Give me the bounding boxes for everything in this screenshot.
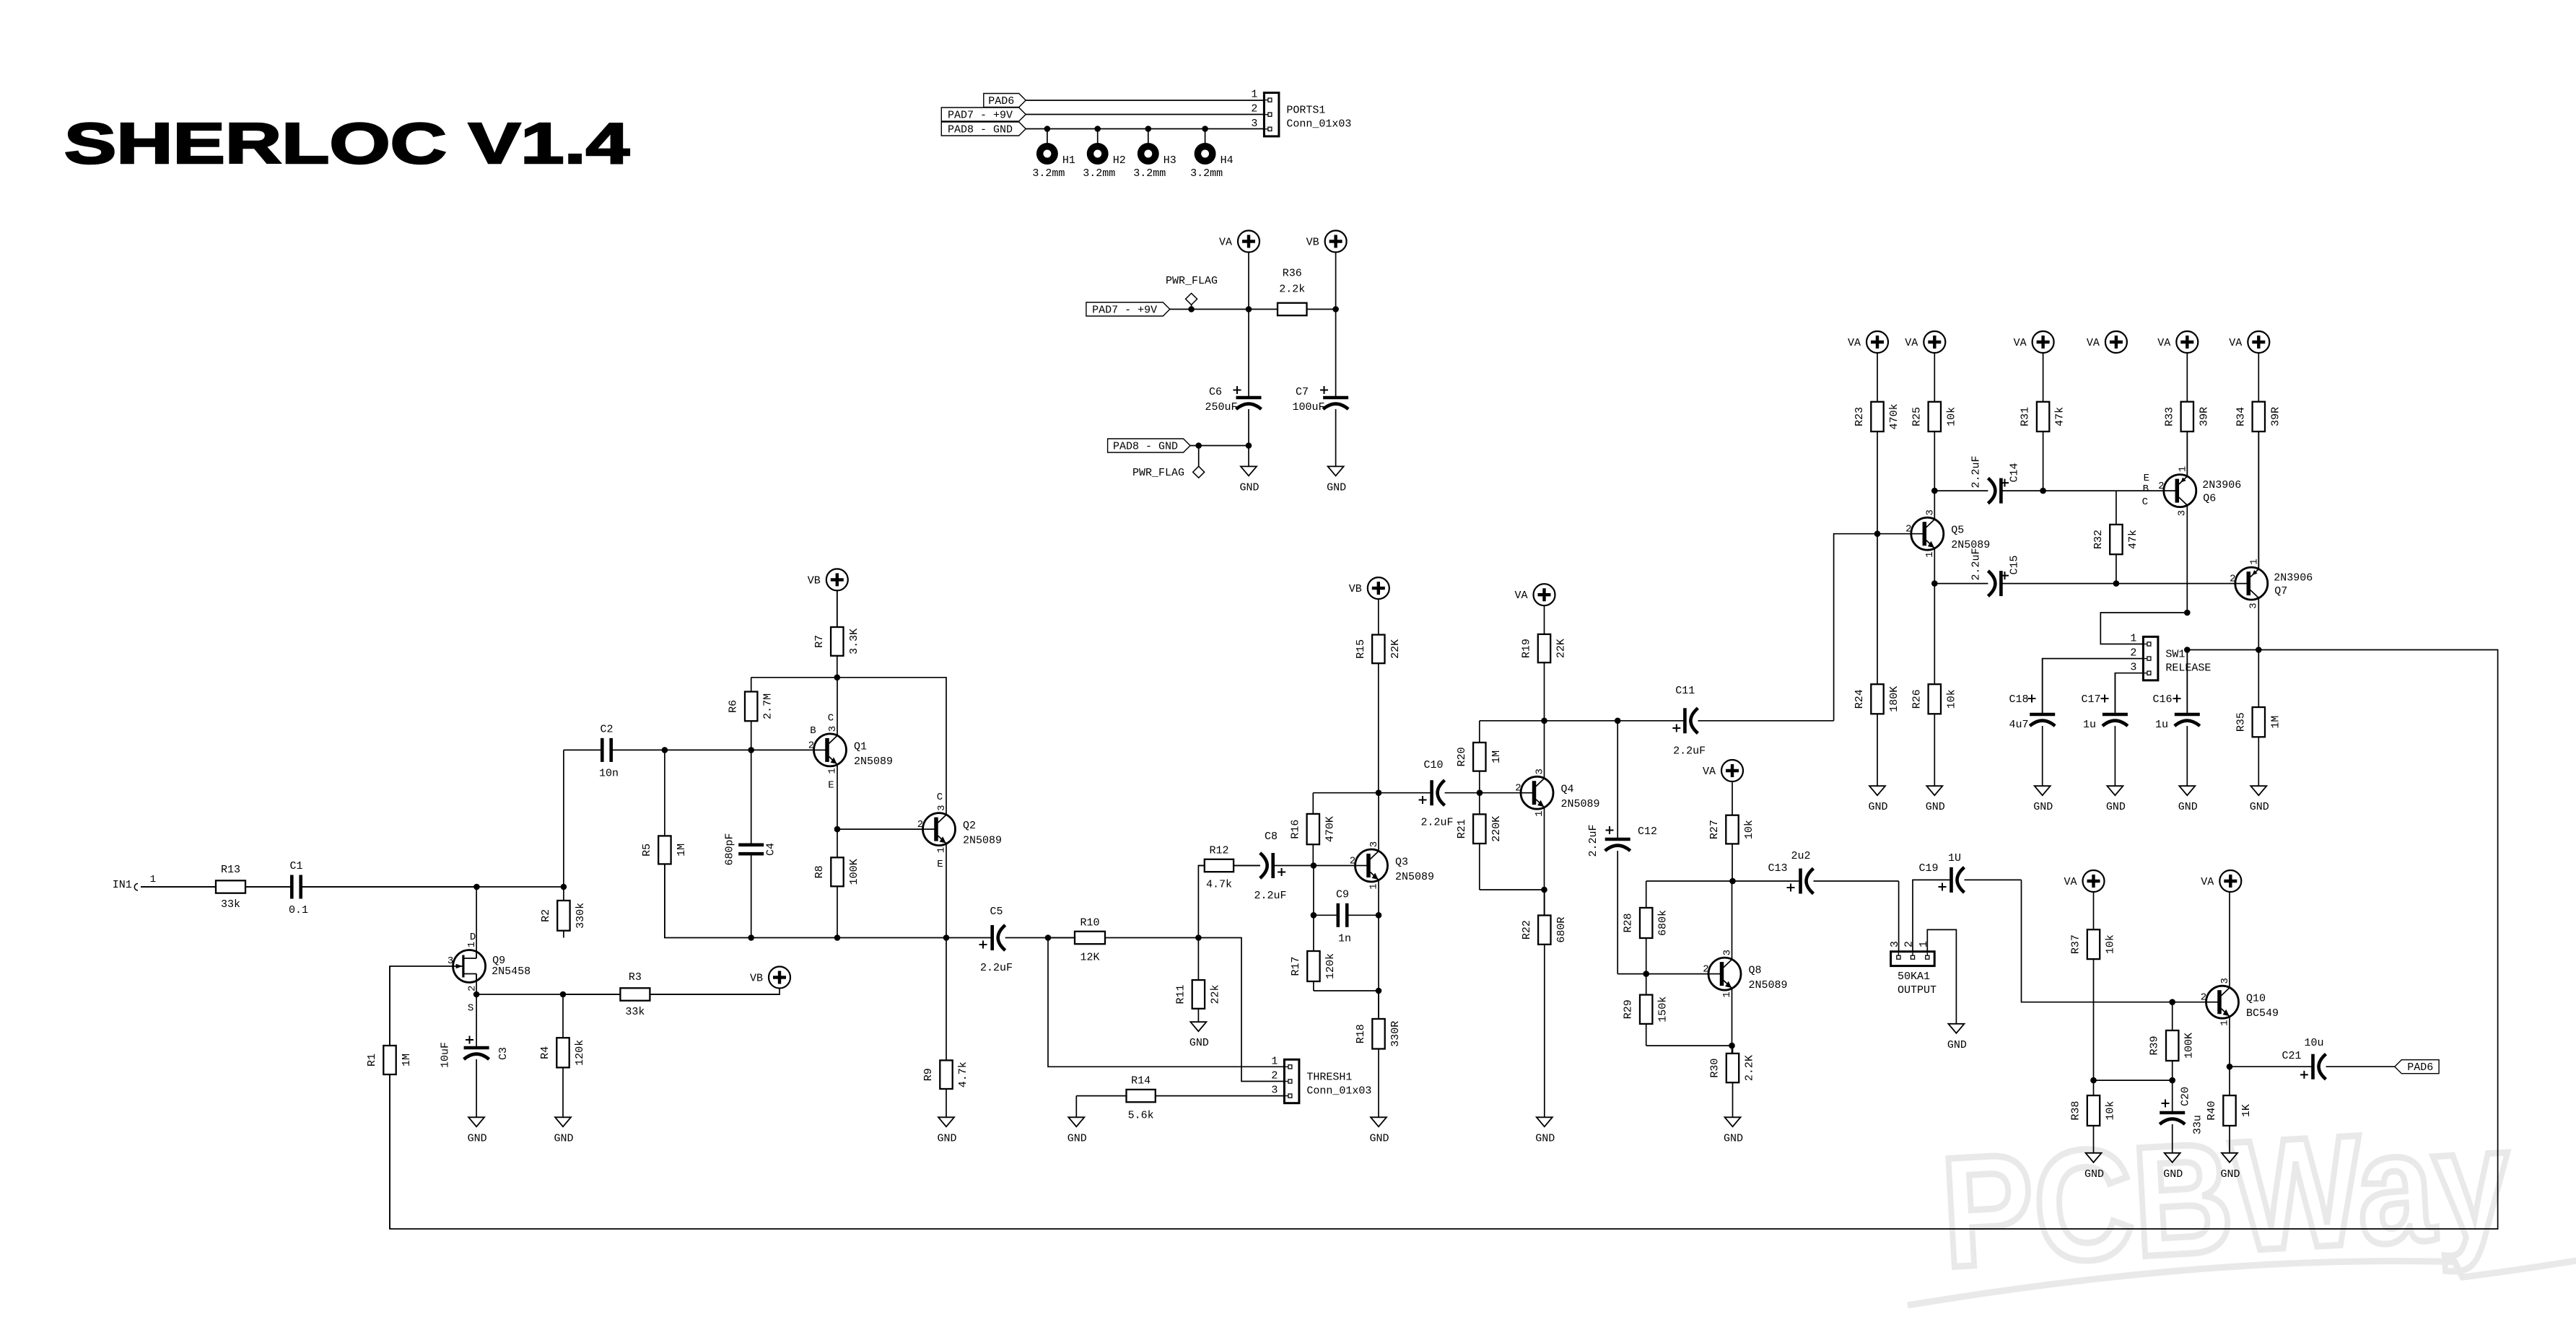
svg-text:3: 3: [2248, 603, 2259, 608]
transistor Q5 2N5089: [1905, 509, 1990, 558]
svg-text:GND: GND: [468, 1132, 487, 1144]
junction C10 right R20 R21 Q4 base: [1477, 789, 1483, 796]
wire to Q8 base: [1646, 973, 1708, 975]
wire R3 to VB: [650, 989, 780, 995]
svg-text:10k: 10k: [2105, 934, 2117, 954]
transistor Q7 2N3906 PNP: [2230, 559, 2313, 608]
svg-text:R7: R7: [813, 635, 826, 648]
hierarchical label PAD7 power: [1086, 302, 1170, 317]
svg-text:C3: C3: [497, 1047, 510, 1060]
wire Q9 source lead: [476, 974, 477, 995]
wire pot pin2 to C19: [1913, 880, 1950, 951]
connector PORTS1: [1251, 89, 1351, 136]
svg-text:10uF: 10uF: [440, 1042, 452, 1068]
svg-text:2.2uF: 2.2uF: [1970, 455, 1983, 488]
ground GND R24: [1868, 786, 1887, 813]
svg-text:1: 1: [150, 874, 156, 885]
ground GND C17: [2106, 786, 2126, 813]
wire R38 to GND: [2093, 1126, 2095, 1153]
svg-text:GND: GND: [1239, 481, 1259, 494]
junction node Q9 drain: [473, 884, 480, 890]
svg-text:2N3906: 2N3906: [2202, 479, 2241, 491]
resistor R30 2.2K: [1709, 1046, 1756, 1117]
svg-text:VB: VB: [1349, 583, 1362, 595]
capacitor C1 0.1: [245, 860, 476, 916]
wire Q3 collector up: [1378, 793, 1379, 851]
svg-text:33k: 33k: [625, 1006, 645, 1018]
svg-text:2: 2: [2230, 574, 2235, 585]
wire R37/R38 to C20: [2094, 1080, 2173, 1081]
power symbol VB at R3: [750, 967, 790, 989]
resistor R29 150k: [1623, 974, 1669, 1046]
svg-text:120k: 120k: [1324, 953, 1337, 979]
transistor Q1 2N5089: [808, 712, 893, 791]
transistor Q3 2N5089: [1350, 841, 1434, 890]
svg-text:1: 1: [1534, 810, 1545, 816]
svg-text:R9: R9: [922, 1068, 935, 1081]
resistor R32 47k: [2092, 491, 2139, 584]
svg-text:680k: 680k: [1657, 910, 1669, 936]
resistor R7 3.3K: [813, 590, 860, 677]
wire PWR_FLAG stem: [1191, 305, 1192, 309]
svg-text:S: S: [468, 1003, 473, 1015]
junction Q5 emitter R26: [1931, 580, 1938, 587]
wire to Q5 base: [1877, 533, 1911, 535]
svg-text:R31: R31: [2020, 407, 2032, 426]
svg-text:VA: VA: [2087, 337, 2100, 349]
svg-text:VA: VA: [1905, 337, 1918, 349]
ground GND R9: [937, 1117, 956, 1144]
svg-text:10u: 10u: [2304, 1037, 2323, 1049]
wire R16 top to Q3 collector: [1313, 792, 1379, 794]
wire C6 to GND: [1248, 446, 1249, 467]
mounting hole H2 3.2mm: [1083, 146, 1126, 180]
svg-text:180K: 180K: [1888, 686, 1900, 712]
svg-text:10n: 10n: [599, 767, 619, 779]
svg-text:1: 1: [1721, 991, 1733, 997]
svg-text:3: 3: [1889, 941, 1901, 947]
svg-text:B: B: [810, 725, 816, 737]
resistor R27 10k: [1708, 781, 1755, 881]
svg-text:VA: VA: [1219, 237, 1232, 249]
transistor Q4 2N5089: [1515, 768, 1599, 817]
power symbol VA x=2830.6: [2014, 331, 2054, 353]
wire R14 to GND: [1075, 1096, 1077, 1118]
svg-text:PAD7 - +9V: PAD7 - +9V: [948, 110, 1013, 122]
svg-text:GND: GND: [2084, 1168, 2104, 1181]
svg-text:3: 3: [2130, 662, 2136, 674]
resistor R33 39R: [2163, 353, 2210, 475]
wire Q8 emitter down: [1732, 989, 1733, 1054]
svg-text:H4: H4: [1221, 154, 1234, 167]
svg-text:Q1: Q1: [854, 740, 867, 753]
hierarchical label PAD7 - +9V: [941, 108, 1026, 122]
svg-text:2.2uF: 2.2uF: [1254, 890, 1286, 902]
svg-text:R13: R13: [221, 864, 240, 876]
svg-text:2.2uF: 2.2uF: [1970, 548, 1983, 580]
resistor R34 39R: [2235, 353, 2282, 567]
capacitor C10 2.2uF: [1379, 759, 1480, 829]
svg-text:R30: R30: [1709, 1059, 1721, 1078]
junction C6 bottom: [1246, 442, 1252, 449]
wire to Q7 base: [2116, 583, 2236, 584]
svg-text:470K: 470K: [1324, 816, 1336, 842]
wire to Q3 base: [1314, 865, 1355, 867]
ground GND R35: [2250, 786, 2269, 813]
svg-text:3.2mm: 3.2mm: [1190, 167, 1223, 180]
capacitor C18 4u7: [2009, 659, 2055, 787]
resistor R25 10k: [1911, 353, 1957, 491]
svg-text:2: 2: [1350, 856, 1355, 867]
junction R6 bottom C4 top: [748, 747, 754, 753]
svg-text:Conn_01x03: Conn_01x03: [1286, 118, 1351, 131]
PWR_FLAG upper sym: [1166, 275, 1218, 305]
svg-text:1U: 1U: [1948, 852, 1961, 864]
svg-text:47k: 47k: [2127, 530, 2139, 549]
junction Q8 emitter R29: [1729, 1043, 1735, 1049]
resistor R39 100K: [2149, 1002, 2196, 1080]
resistor R18 330R: [1355, 991, 1402, 1117]
svg-text:1M: 1M: [2269, 716, 2282, 729]
transistor Q8 2N5089: [1703, 950, 1787, 998]
svg-text:47k: 47k: [2054, 407, 2066, 426]
svg-text:3: 3: [447, 955, 453, 967]
resistor R3 33k: [563, 971, 780, 1018]
svg-text:VA: VA: [1848, 337, 1861, 349]
svg-text:C1: C1: [289, 860, 302, 872]
resistor R10 12K: [1048, 917, 1198, 964]
svg-text:3: 3: [2176, 510, 2188, 516]
svg-text:R18: R18: [1355, 1024, 1367, 1043]
svg-text:VB: VB: [750, 973, 763, 985]
svg-text:C19: C19: [1918, 862, 1938, 875]
junction PWR_FLAG lower: [1195, 442, 1202, 449]
svg-text:33k: 33k: [221, 898, 240, 911]
resistor R17 120k: [1290, 915, 1337, 991]
wire base bus Q1: [665, 749, 813, 750]
svg-text:33u: 33u: [2192, 1115, 2204, 1134]
wire VB to R7: [837, 590, 838, 627]
svg-text:2.7M: 2.7M: [762, 693, 774, 719]
svg-text:C20: C20: [2180, 1087, 2192, 1106]
connector SW1 RELEASE: [2130, 633, 2211, 680]
svg-text:R28: R28: [1623, 913, 1635, 932]
capacitor C8 2.2uF: [1234, 831, 1314, 902]
junction Q6 collector SW pin1: [2184, 610, 2191, 616]
wire Q3 emitter down: [1378, 880, 1379, 1020]
svg-text:2N5089: 2N5089: [1749, 979, 1788, 991]
wire source to R4: [476, 994, 563, 995]
svg-text:VA: VA: [2229, 337, 2242, 349]
junction C12 top: [1615, 718, 1621, 724]
svg-text:1: 1: [1918, 941, 1930, 947]
svg-text:C8: C8: [1265, 831, 1278, 843]
wire to H1: [1047, 129, 1048, 146]
svg-text:R19: R19: [1521, 639, 1533, 658]
svg-text:Q3: Q3: [1395, 857, 1408, 869]
svg-text:1K: 1K: [2240, 1104, 2253, 1117]
svg-text:C5: C5: [990, 906, 1003, 918]
resistor R6 2.7M: [728, 678, 774, 750]
svg-text:GND: GND: [1868, 801, 1887, 813]
wire to Q4 base: [1480, 792, 1521, 794]
svg-text:12K: 12K: [1080, 952, 1099, 964]
ground GND R26: [1926, 786, 1945, 813]
svg-text:R20: R20: [1456, 747, 1468, 766]
wire collector bus Q1: [751, 677, 947, 678]
svg-text:R26: R26: [1911, 689, 1923, 709]
junction R37 R38: [2090, 1077, 2097, 1084]
resistor R38 10k: [2070, 1080, 2117, 1126]
svg-text:PAD7 - +9V: PAD7 - +9V: [1092, 305, 1157, 317]
wire R20 top to Q4 collector: [1480, 720, 1545, 722]
resistor R12 4.7k: [1198, 845, 1260, 891]
junction release node: [2184, 647, 2191, 653]
svg-text:100uF: 100uF: [1292, 401, 1324, 413]
transistor Q9 2N5458 JFET: [447, 932, 531, 1014]
junction C8 R16: [1311, 862, 1317, 869]
mounting hole H3 3.2mm: [1133, 146, 1176, 180]
svg-text:2.2uF: 2.2uF: [1673, 745, 1706, 758]
svg-text:R6: R6: [728, 700, 740, 713]
svg-text:GND: GND: [1067, 1132, 1087, 1144]
svg-text:H2: H2: [1113, 154, 1126, 167]
ground GND power C7: [1327, 466, 1346, 494]
junction R10 right R11 R12: [1195, 934, 1202, 941]
svg-text:GND: GND: [2178, 801, 2198, 813]
svg-text:2.2k: 2.2k: [1279, 284, 1305, 296]
svg-text:PAD8 - GND: PAD8 - GND: [948, 124, 1013, 136]
capacitor C19 sym: [1939, 867, 2022, 893]
svg-text:H1: H1: [1062, 154, 1075, 167]
wire Q2 collector up: [946, 678, 947, 815]
power symbol VA x=2601: [1848, 331, 1888, 353]
wire PWR_FLAG lower stem: [1198, 446, 1200, 467]
PWR_FLAG lower sym: [1132, 466, 1205, 479]
resistor R4 120k: [539, 994, 586, 1117]
wire C13 bus: [1646, 880, 1799, 882]
svg-text:E: E: [828, 779, 834, 791]
svg-text:2: 2: [1251, 103, 1257, 115]
junction R5 top: [662, 747, 668, 753]
svg-text:H3: H3: [1163, 154, 1176, 167]
junction R8 bottom: [834, 934, 841, 941]
svg-text:C: C: [828, 712, 834, 724]
capacitor C12 2.2uF: [1587, 721, 1657, 974]
junction R23 bottom Q5 base: [1874, 530, 1881, 537]
junction C9 right on emitter: [1376, 912, 1382, 919]
svg-text:R38: R38: [2070, 1101, 2082, 1121]
junction Q2 emitter node: [943, 934, 950, 941]
svg-text:2: 2: [1271, 1070, 1278, 1082]
ground GND R11: [1189, 1022, 1209, 1049]
svg-text:GND: GND: [2220, 1168, 2240, 1181]
input connector IN1: [113, 874, 156, 891]
resistor R24 180K: [1854, 534, 1900, 786]
junction R31 bottom C14: [2040, 488, 2046, 494]
wire to H3: [1148, 129, 1149, 146]
junction R27 bottom Q8 collector: [1729, 878, 1736, 885]
svg-text:R11: R11: [1174, 984, 1187, 1004]
svg-text:B: B: [2143, 483, 2149, 495]
wire down to Q9 drain: [476, 887, 477, 958]
transistor Q2 2N5089: [917, 792, 1002, 870]
svg-text:GND: GND: [1327, 481, 1346, 494]
svg-text:Q10: Q10: [2246, 993, 2266, 1005]
svg-text:2N5089: 2N5089: [1395, 871, 1434, 883]
svg-text:VB: VB: [1306, 237, 1319, 249]
wire to THRESH1 pin1: [1048, 938, 1284, 1067]
wire Q10 emitter down: [2229, 1017, 2230, 1067]
svg-text:PWR_FLAG: PWR_FLAG: [1132, 467, 1184, 479]
ground GND C18: [2033, 786, 2053, 813]
junction R17 bottom emitter: [1376, 988, 1382, 994]
svg-text:GND: GND: [2106, 801, 2126, 813]
capacitor C21 sym: [2230, 1054, 2395, 1080]
wire PAD6 to PORTS1 pin1: [1026, 100, 1264, 101]
wire Q4 collector up: [1544, 721, 1545, 779]
wire Q4 emitter down: [1544, 807, 1545, 916]
power symbol VA x=2931.9: [2087, 331, 2127, 353]
mounting hole H1 3.2mm: [1032, 146, 1075, 180]
title SHERLOC V1.4: [64, 112, 629, 176]
svg-text:GND: GND: [1189, 1037, 1209, 1049]
svg-text:470k: 470k: [1888, 403, 1900, 429]
power symbol VA at Q10: [2201, 870, 2241, 892]
capacitor C16 1u: [2152, 650, 2199, 787]
svg-text:2: 2: [808, 740, 814, 751]
svg-text:R24: R24: [1854, 689, 1866, 709]
svg-text:VA: VA: [1514, 590, 1527, 602]
wire SW1 pin3 to C17: [2115, 673, 2143, 714]
wire release node to C16: [2186, 650, 2188, 714]
power symbol VA x=2680.3: [1905, 331, 1945, 353]
junction R32 bottom C15: [2113, 580, 2120, 587]
svg-text:2N5458: 2N5458: [492, 965, 531, 978]
svg-text:100K: 100K: [2183, 1033, 2196, 1059]
svg-text:R23: R23: [1854, 407, 1866, 426]
svg-text:2: 2: [2201, 992, 2206, 1004]
capacitor C2 plates: [564, 723, 665, 779]
svg-text:GND: GND: [1947, 1039, 1967, 1051]
mounting hole H4 3.2mm: [1190, 146, 1234, 180]
ground GND C16: [2178, 786, 2198, 813]
svg-text:2: 2: [1905, 524, 1911, 535]
junction Q5 collector R25: [1931, 488, 1938, 494]
power symbol VA at R37: [2064, 870, 2104, 892]
capacitor C4 680pF: [724, 750, 777, 937]
svg-text:R35: R35: [2235, 712, 2247, 732]
power symbol VA at R19: [1514, 584, 1555, 605]
wire Q5 collector up: [1934, 491, 1935, 520]
wire release node to bottom rail to R1: [390, 650, 2498, 1230]
wire IN1 to R13: [141, 886, 216, 888]
svg-text:250uF: 250uF: [1205, 401, 1237, 413]
svg-text:1: 1: [466, 942, 478, 947]
resistor R35 1M: [2235, 650, 2282, 787]
wire to C11 C12 node: [1545, 720, 1618, 722]
wire to SW1 pin1: [2100, 613, 2187, 644]
svg-text:C: C: [2142, 496, 2148, 508]
wire C12 bottom to Q8 base node: [1617, 973, 1646, 975]
ground GND R4: [554, 1117, 573, 1144]
svg-text:PAD6: PAD6: [2407, 1061, 2433, 1074]
svg-text:Q7: Q7: [2274, 585, 2287, 597]
svg-text:R33: R33: [2163, 407, 2175, 426]
svg-text:VA: VA: [2014, 337, 2027, 349]
resistor R15 22K: [1355, 599, 1402, 793]
wire VA to R36 node: [1248, 253, 1249, 310]
wire R21 bottom to Q4 emitter: [1480, 889, 1545, 890]
svg-text:3.2mm: 3.2mm: [1083, 167, 1115, 180]
svg-text:VB: VB: [808, 574, 821, 587]
svg-text:1M: 1M: [676, 844, 688, 857]
svg-text:3.2mm: 3.2mm: [1133, 167, 1166, 180]
svg-text:GND: GND: [554, 1132, 573, 1144]
junction C4 bottom: [748, 934, 754, 941]
ground GND R40: [2220, 1153, 2240, 1181]
svg-text:120k: 120k: [574, 1040, 586, 1066]
svg-text:PAD8 - GND: PAD8 - GND: [1113, 441, 1178, 453]
resistor R22 680R: [1521, 890, 1568, 1117]
capacitor C5 2.2uF: [979, 906, 1049, 974]
svg-text:C21: C21: [2282, 1050, 2301, 1062]
svg-text:GND: GND: [1926, 801, 1945, 813]
svg-text:R17: R17: [1290, 956, 1302, 976]
wire R40 to GND: [2229, 1126, 2230, 1153]
wire PAD8 to PORTS1 pin3: [1026, 128, 1264, 130]
svg-text:SHERLOC V1.4: SHERLOC V1.4: [64, 112, 629, 176]
wire Q1 emitter down: [837, 764, 838, 829]
capacitor C20 33u: [2160, 1080, 2204, 1153]
hierarchical label PAD6: [984, 94, 1026, 108]
junction Q4 emitter R21: [1541, 887, 1547, 893]
svg-text:R10: R10: [1080, 917, 1099, 929]
junction Q1 emitter R8 Q2 base: [834, 826, 841, 833]
resistor R14 5.6k: [1076, 1075, 1284, 1122]
svg-text:1: 1: [1251, 89, 1257, 101]
svg-text:1: 1: [936, 847, 948, 853]
svg-text:1u: 1u: [2083, 719, 2096, 731]
svg-text:GND: GND: [1369, 1132, 1389, 1144]
svg-text:22k: 22k: [1209, 984, 1221, 1004]
wire Q8 collector up: [1732, 881, 1733, 960]
svg-text:C17: C17: [2081, 693, 2100, 706]
wire C1 to R2 node: [302, 886, 564, 888]
connector THRESH1: [1271, 1055, 1371, 1103]
svg-text:R29: R29: [1623, 999, 1635, 1019]
svg-text:1: 1: [1368, 883, 1380, 889]
wire Q9 gate to R1: [390, 966, 453, 1046]
svg-text:39R: 39R: [2198, 407, 2210, 426]
svg-text:2N3906: 2N3906: [2274, 572, 2313, 584]
power symbol VB (supply): [1306, 231, 1347, 253]
ground GND R38: [2084, 1153, 2104, 1181]
svg-text:RELEASE: RELEASE: [2165, 662, 2211, 674]
svg-text:R5: R5: [641, 844, 653, 857]
capacitor C14 sym: [1934, 478, 2043, 504]
wire PAD7 to R36: [1170, 309, 1278, 310]
resistor R40 1K: [2206, 1067, 2253, 1126]
svg-text:2N5089: 2N5089: [1561, 798, 1600, 810]
svg-text:VA: VA: [2157, 337, 2170, 349]
transistor Q6 2N3906 PNP: [2158, 466, 2241, 516]
wire Q7 emitter to R34: [2258, 432, 2259, 569]
wire R17 bottom to emitter: [1314, 990, 1379, 991]
ground GND pot: [1947, 1024, 1967, 1051]
svg-text:GND: GND: [937, 1132, 956, 1144]
wire PAD8 to C6 bottom: [1190, 445, 1249, 447]
